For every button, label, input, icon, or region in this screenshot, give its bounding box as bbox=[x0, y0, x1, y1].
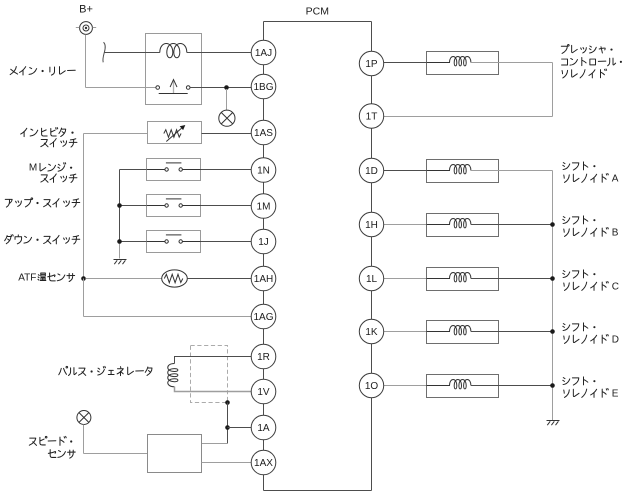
wire ATF junction down to 1AG row bbox=[83, 279, 85, 317]
wire common to inhibitor switch bbox=[84, 133, 148, 135]
wire up switch to pin 1M bbox=[201, 205, 252, 207]
node up-switch junction bbox=[117, 203, 122, 208]
PCM pin 1T bbox=[359, 104, 383, 128]
svg-text:1O: 1O bbox=[365, 381, 379, 392]
PCM pin 1O bbox=[359, 373, 383, 397]
node down-switch junction bbox=[117, 239, 122, 244]
shift solenoid B box bbox=[427, 214, 499, 237]
PCM pin 1L bbox=[359, 266, 383, 290]
svg-text:1T: 1T bbox=[366, 112, 378, 123]
speed sensor lamp (circle-X) bbox=[77, 411, 91, 425]
wire pin to shift solenoid E bbox=[384, 385, 427, 387]
wire relay switch to pin 1BG bbox=[190, 87, 251, 89]
svg-text:D: D bbox=[612, 335, 619, 346]
label shift solenoid E line2 bbox=[564, 388, 619, 399]
wire shift solenoid D to bus bbox=[471, 331, 553, 333]
wire pin to shift solenoid B bbox=[384, 224, 427, 226]
shift solenoid ground bus bbox=[552, 171, 554, 421]
label M-range switch line1 bbox=[29, 163, 72, 174]
svg-text:1J: 1J bbox=[258, 237, 269, 248]
svg-text:1H: 1H bbox=[365, 220, 378, 231]
relay coil L bbox=[160, 44, 187, 58]
wire pin to shift solenoid A bbox=[384, 170, 427, 172]
label M-range switch line2 bbox=[41, 174, 77, 182]
wire common vertical (inhibitor/ATF/1AG) bbox=[83, 134, 85, 279]
PCM pin 1M bbox=[251, 194, 276, 219]
svg-text:1M: 1M bbox=[257, 202, 271, 213]
PCM pin 1AJ bbox=[251, 40, 276, 65]
down switch contacts bbox=[147, 241, 165, 243]
label inhibitor switch line2 bbox=[41, 139, 77, 147]
label shift solenoid E line1 bbox=[563, 377, 596, 385]
label shift solenoid C line1 bbox=[563, 270, 596, 278]
pressure control solenoid coil bbox=[427, 57, 471, 66]
wire shift solenoid A to bus bbox=[471, 170, 553, 172]
PCM pin 1AS bbox=[251, 120, 276, 145]
svg-text:E: E bbox=[612, 389, 619, 400]
relay switch actuator arrow bbox=[173, 81, 175, 93]
label shift solenoid B line2 bbox=[564, 227, 619, 238]
wire shift solenoid B to bus bbox=[471, 224, 553, 226]
shift solenoid C box bbox=[427, 268, 499, 291]
PCM pin 1J bbox=[251, 229, 276, 254]
wire pin to shift solenoid D bbox=[384, 331, 427, 333]
label pulse generator bbox=[59, 366, 152, 375]
relay switch contacts bbox=[156, 86, 160, 90]
wire to relay switch contact bbox=[86, 87, 156, 89]
wire solenoid return down bbox=[552, 63, 554, 117]
node bus junction y=385.5 bbox=[550, 383, 555, 388]
node bus junction y=224.5 bbox=[550, 222, 555, 227]
wire pressure control solenoid to bus bbox=[471, 62, 553, 64]
inhibitor variable resistor bbox=[164, 130, 181, 138]
svg-text:PCM: PCM bbox=[306, 6, 329, 18]
ground (switch common) bbox=[114, 260, 127, 265]
label shift solenoid D line1 bbox=[563, 323, 596, 331]
label pressure control solenoid line1 bbox=[561, 45, 612, 54]
wire return to pin 1T bbox=[384, 116, 553, 118]
svg-text:1BG: 1BG bbox=[253, 82, 273, 93]
wire junction down to lamp bbox=[226, 89, 228, 110]
svg-text:1AJ: 1AJ bbox=[255, 48, 272, 59]
wire pin to pressure control solenoid bbox=[384, 62, 427, 64]
node 1A junction bbox=[225, 425, 230, 430]
label shift solenoid A line2 bbox=[564, 173, 619, 184]
svg-text:1V: 1V bbox=[257, 387, 270, 398]
shift solenoid A coil bbox=[427, 165, 471, 174]
node bus junction y=278.5 bbox=[550, 276, 555, 281]
svg-text:1AH: 1AH bbox=[254, 274, 273, 285]
PCM pin 1K bbox=[359, 319, 383, 343]
label speed sensor line2 bbox=[48, 450, 75, 459]
svg-text:1K: 1K bbox=[365, 327, 378, 338]
pressure control solenoid box bbox=[427, 52, 499, 75]
node relay output junction bbox=[224, 85, 229, 90]
PCM pin 1AH bbox=[251, 266, 276, 291]
wire junction to pin 1A bbox=[228, 427, 252, 429]
pulse generator shield (dashed box) bbox=[191, 346, 228, 403]
label pressure control solenoid line3 bbox=[562, 69, 607, 78]
PCM pin 1D bbox=[359, 158, 383, 182]
svg-text:1P: 1P bbox=[365, 59, 378, 70]
wire speed sensor to pin 1AX bbox=[202, 462, 252, 464]
wire common to up switch bbox=[120, 205, 148, 207]
speed sensor box bbox=[148, 435, 202, 473]
svg-text:1L: 1L bbox=[366, 274, 378, 285]
wire B+ down to relay switch bbox=[85, 35, 87, 88]
svg-text:A: A bbox=[612, 174, 619, 185]
svg-text:B+: B+ bbox=[79, 3, 93, 15]
wire shift solenoid E to bus bbox=[471, 385, 553, 387]
pulse generator coil bbox=[168, 364, 178, 387]
M-range switch contacts bbox=[147, 169, 165, 171]
svg-text:B: B bbox=[612, 228, 619, 239]
label shift solenoid D line2 bbox=[564, 334, 619, 345]
svg-text:C: C bbox=[612, 282, 619, 293]
PCM pin 1AX bbox=[251, 450, 276, 475]
inhibitor switch box bbox=[148, 122, 202, 144]
label inhibitor switch line1 bbox=[21, 127, 74, 136]
node ATF sensor junction bbox=[81, 276, 86, 281]
PCM pin 1V bbox=[251, 379, 276, 404]
label shift solenoid A line1 bbox=[563, 162, 596, 170]
PCM pin 1N bbox=[251, 158, 276, 183]
shift solenoid D box bbox=[427, 321, 499, 344]
label up switch bbox=[5, 198, 79, 207]
svg-text:1D: 1D bbox=[365, 166, 378, 177]
wire lamp to speed sensor box bbox=[84, 453, 148, 455]
up switch contacts bbox=[147, 205, 165, 207]
shift solenoid C coil bbox=[427, 273, 471, 282]
wire shield/sensor junction vertical bbox=[227, 403, 229, 444]
node shield junction bbox=[225, 400, 230, 405]
switch common wire vertical bbox=[119, 170, 121, 242]
shift solenoid E box bbox=[427, 375, 499, 398]
svg-text:ATF: ATF bbox=[18, 272, 36, 283]
PCM pin 1P bbox=[359, 51, 383, 75]
shift solenoid B coil bbox=[427, 219, 471, 228]
M-range switch box bbox=[147, 159, 201, 181]
wire ATF thermistor to pin 1AH bbox=[187, 278, 251, 280]
PCM pin 1H bbox=[359, 212, 383, 236]
ATF thermistor bbox=[162, 270, 188, 287]
svg-text:1R: 1R bbox=[257, 352, 270, 363]
svg-text:M: M bbox=[29, 163, 37, 174]
wire pulse generator to pin 1R bbox=[175, 357, 252, 364]
PCM outline bottom wire bbox=[264, 490, 372, 492]
down switch box bbox=[147, 231, 201, 253]
wire hook to relay coil bbox=[104, 52, 160, 54]
ground (solenoid bus) bbox=[547, 421, 560, 426]
label main relay bbox=[10, 67, 75, 76]
svg-text:1A: 1A bbox=[257, 423, 270, 434]
wire common to M-range switch bbox=[120, 169, 148, 171]
svg-text:1AS: 1AS bbox=[254, 128, 273, 139]
PCM pin 1A bbox=[251, 415, 276, 440]
svg-text:1N: 1N bbox=[257, 166, 270, 177]
label shift solenoid B line1 bbox=[563, 216, 596, 224]
label speed sensor line1 bbox=[29, 436, 72, 445]
node bus junction y=331.5 bbox=[550, 329, 555, 334]
shift solenoid E coil bbox=[427, 380, 471, 389]
wire junction to ATF thermistor bbox=[86, 278, 162, 280]
label ATF temp sensor bbox=[18, 272, 74, 283]
PCM left connector spine (wire) bbox=[263, 22, 265, 491]
wire lamp down bbox=[83, 425, 85, 454]
wire pin to shift solenoid C bbox=[384, 278, 427, 280]
wire down-switch junction to ground bbox=[119, 242, 121, 259]
label shift solenoid C line2 bbox=[564, 281, 619, 292]
wire relay coil to pin 1AJ bbox=[187, 52, 251, 54]
svg-text:1AX: 1AX bbox=[254, 458, 273, 469]
wire stub with hook into relay coil bbox=[103, 42, 105, 62]
PCM pin 1BG bbox=[251, 74, 276, 99]
wire pulse generator to pin 1V bbox=[175, 387, 252, 392]
wire junction to speed sensor bbox=[202, 443, 228, 445]
shift solenoid A box bbox=[427, 160, 499, 183]
up switch box bbox=[147, 195, 201, 217]
relay switch bar bbox=[159, 93, 188, 95]
wire down switch to pin 1J bbox=[201, 241, 252, 243]
wire common to pin 1AG bbox=[84, 316, 252, 318]
PCM pin 1R bbox=[251, 344, 276, 369]
label pressure control solenoid line2 bbox=[562, 58, 622, 66]
battery terminal B+ bbox=[76, 3, 96, 34]
shift solenoid D coil bbox=[427, 326, 471, 335]
PCM right connector spine (wire) bbox=[371, 22, 373, 491]
wire M-range switch to pin 1N bbox=[201, 169, 252, 171]
label down switch bbox=[5, 235, 80, 244]
PCM pin 1AG bbox=[251, 304, 276, 329]
wire common to down switch bbox=[120, 241, 148, 243]
wire shift solenoid C to bus bbox=[471, 278, 553, 280]
indicator lamp (circle-X) bbox=[219, 110, 235, 126]
wire inhibitor switch to pin 1AS bbox=[202, 133, 252, 135]
PCM connector outline top bbox=[264, 21, 372, 23]
relay box (main relay) bbox=[146, 34, 202, 105]
svg-text:1AG: 1AG bbox=[253, 312, 273, 323]
